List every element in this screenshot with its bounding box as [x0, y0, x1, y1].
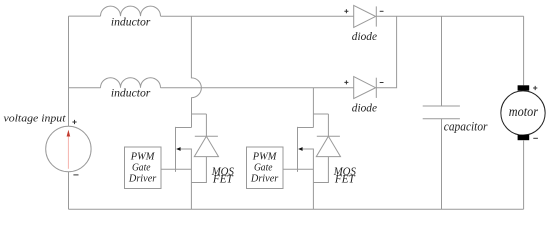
svg-text:diode: diode [352, 100, 378, 114]
wire: top rail middle segment [161, 15, 354, 17]
PWM gate driver U2 box [247, 147, 284, 189]
diode D3 bottom wire [191, 157, 206, 183]
svg-text:voltage input: voltage input [4, 112, 67, 124]
diode D1 triangle [354, 5, 376, 27]
transistor Q1 drain tap [176, 127, 192, 129]
transistor Q2 gate wire [283, 168, 313, 170]
motor M1 body circle [501, 91, 545, 135]
transistor Q1 source arrow head [176, 147, 181, 151]
wire: Q2 drain to diode branch [313, 113, 328, 115]
capacitor C1 bottom wire [441, 119, 443, 209]
wire: Q1 drain vertical with hop over phase2 line [191, 16, 201, 127]
transistor Q1 channel bar [175, 127, 177, 172]
diode D2 triangle [354, 77, 376, 99]
wire: motor top [523, 16, 525, 85]
transistor Q2 source wire [303, 149, 314, 209]
svg-text:FET: FET [334, 174, 356, 186]
diode D3 triangle [194, 136, 218, 156]
svg-text:Driver: Driver [250, 172, 279, 184]
voltage source V1 arrow line [67, 136, 69, 169]
voltage source V1 circle [46, 126, 91, 171]
wire: bottom rail [69, 208, 524, 210]
voltage source V1 plus [72, 120, 76, 124]
wire: left vertical upper [68, 16, 70, 126]
diode D3 anode wire [205, 114, 207, 136]
diode D1 minus label [380, 10, 384, 12]
motor M1 plus [533, 86, 537, 90]
voltage source V1 minus [73, 174, 78, 176]
diode D4 anode wire [327, 114, 329, 136]
capacitor C1 top wire [441, 16, 443, 106]
svg-text:Driver: Driver [128, 172, 157, 184]
svg-text:inductor: inductor [111, 14, 151, 28]
wire: diode D2 output to top rail [376, 16, 396, 88]
wire: top rail right segment [376, 15, 523, 17]
capacitor C1 top plate [423, 105, 460, 107]
diode D4 cathode bar [317, 135, 340, 137]
transistor Q2 source arrow head [298, 147, 303, 151]
wire: Q2 drain vertical [312, 88, 314, 128]
diode D4 triangle [316, 136, 340, 156]
diode D2 minus label [380, 82, 384, 84]
wire: phase2 line middle segment [161, 87, 354, 89]
svg-text:capacitor: capacitor [444, 120, 488, 134]
capacitor C1 bottom plate [423, 118, 460, 120]
diode D1 cathode bar [375, 6, 377, 26]
wire: motor bottom [523, 140, 525, 209]
diode D1 plus label [344, 9, 348, 13]
transistor Q1 gate wire [161, 168, 191, 170]
svg-text:diode: diode [352, 29, 378, 43]
diode D2 cathode bar [375, 78, 377, 98]
motor M1 bottom brush [518, 135, 530, 140]
transistor Q1 source wire [181, 149, 192, 209]
diode D4 bottom wire [313, 157, 328, 183]
svg-text:inductor: inductor [111, 86, 151, 100]
inductor L1 coil [101, 6, 161, 16]
PWM gate driver U1 box [125, 147, 162, 189]
diode D3 cathode bar [195, 135, 218, 137]
motor M1 top brush [518, 85, 530, 90]
svg-text:motor: motor [509, 104, 539, 119]
diode D2 plus label [344, 80, 348, 84]
wire: Q1 drain to diode branch [191, 113, 206, 115]
inductor L2 coil [101, 78, 161, 88]
voltage source V1 arrow head [67, 130, 71, 137]
svg-text:FET: FET [212, 174, 234, 186]
wire: phase2 line left segment [69, 87, 101, 89]
transistor Q2 drain tap [298, 127, 314, 129]
wire: top rail left segment [69, 15, 101, 17]
motor M1 minus [533, 137, 538, 139]
transistor Q2 channel bar [297, 127, 299, 172]
wire: left vertical lower [68, 172, 70, 210]
